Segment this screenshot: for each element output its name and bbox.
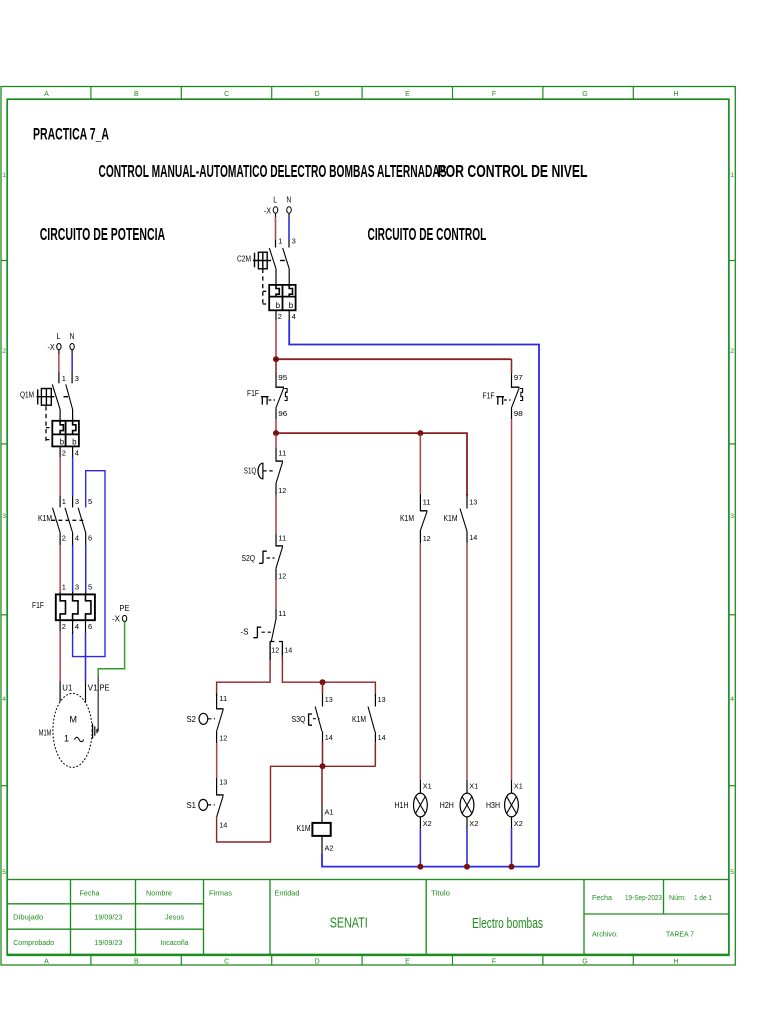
- svg-text:S3Q: S3Q: [292, 715, 306, 724]
- wire K1M14 down to lamp H2H: [466, 531, 468, 793]
- contact K1M 13-14 NO (bottom): [368, 707, 375, 732]
- C2M overload box: [269, 285, 295, 310]
- red bus L1: [276, 358, 512, 360]
- svg-text:4: 4: [292, 312, 296, 321]
- -S actuator float: [253, 627, 261, 638]
- svg-text:D: D: [315, 959, 320, 966]
- wire Q1M-2 to K1M-1: [59, 446, 61, 507]
- wire F1F-2 to motor U1: [59, 620, 61, 702]
- contactor K1M pole 2: [65, 508, 73, 533]
- wire -S-12 to S2 branch: [217, 655, 271, 696]
- overload relay F1F box: [56, 594, 95, 620]
- svg-text:H3H: H3H: [486, 801, 500, 810]
- coil K1M: [312, 823, 330, 836]
- svg-text:b: b: [289, 301, 294, 310]
- contact S3Q NO: [315, 707, 322, 732]
- svg-text:X1: X1: [423, 782, 432, 791]
- svg-text:C2M: C2M: [237, 255, 251, 264]
- K1M linkage dashed: [52, 519, 85, 521]
- row ticks: [1, 261, 735, 786]
- wire N down to Q1M: [71, 350, 73, 384]
- wire PE to motor frame: [97, 676, 98, 731]
- junction dot above coil: [320, 763, 326, 769]
- wire L to C2M: [275, 213, 277, 247]
- svg-text:F1F: F1F: [247, 389, 259, 398]
- svg-text:N: N: [286, 196, 291, 205]
- svg-text:4: 4: [75, 622, 79, 631]
- breaker Q1M crosshatch actuator: [37, 389, 69, 406]
- svg-text:11: 11: [278, 449, 286, 458]
- motor sine symbol: [75, 737, 84, 742]
- svg-text:F: F: [492, 959, 496, 966]
- svg-text:Electro bombas: Electro bombas: [472, 915, 543, 932]
- red bus 2: [276, 433, 467, 495]
- svg-text:H: H: [673, 91, 678, 98]
- svg-text:19-Sep-2023: 19-Sep-2023: [625, 893, 662, 902]
- breaker C2M pole 1 blade: [269, 248, 276, 269]
- svg-text:5: 5: [730, 869, 734, 876]
- svg-text:K1M: K1M: [297, 824, 311, 833]
- wire K1M-6 to F1F-5: [85, 533, 87, 595]
- svg-text:-X: -X: [112, 615, 121, 624]
- column ticks bottom: [91, 954, 633, 965]
- svg-text:H1H: H1H: [395, 801, 409, 810]
- svg-text:K1M: K1M: [352, 715, 366, 724]
- -S terminal 12 seat: [270, 642, 275, 656]
- svg-text:95: 95: [278, 373, 287, 382]
- blue loop wire to K1M-5: [73, 471, 105, 657]
- wire S2 to S1: [216, 731, 218, 795]
- svg-text:14: 14: [469, 533, 477, 542]
- svg-text:Núm:: Núm:: [669, 893, 686, 902]
- svg-text:2: 2: [278, 312, 282, 321]
- svg-text:X2: X2: [423, 819, 432, 828]
- svg-text:V1: V1: [88, 683, 99, 692]
- svg-text:-S: -S: [241, 628, 249, 637]
- svg-text:Entidad: Entidad: [275, 889, 300, 898]
- svg-text:Fecha: Fecha: [592, 893, 613, 902]
- S1 actuator circle: [199, 799, 208, 810]
- svg-text:CONTROL MANUAL-AUTOMATICO DELE: CONTROL MANUAL-AUTOMATICO DELECTRO BOMBA…: [99, 161, 447, 181]
- svg-text:Firmas: Firmas: [209, 889, 232, 898]
- svg-text:X2: X2: [514, 819, 523, 828]
- svg-text:12: 12: [271, 645, 279, 654]
- svg-text:S1: S1: [187, 801, 197, 810]
- junction dot bus2 mid: [417, 430, 423, 436]
- svg-text:2: 2: [730, 348, 734, 355]
- svg-text:A2: A2: [325, 844, 334, 853]
- svg-text:12: 12: [278, 486, 286, 495]
- svg-text:N: N: [70, 332, 75, 341]
- svg-text:A: A: [44, 959, 49, 966]
- svg-text:Jesus: Jesus: [165, 913, 184, 922]
- svg-text:14: 14: [284, 645, 292, 654]
- F1F trip pi symbol: [261, 397, 269, 405]
- Q1M overload box: [52, 421, 79, 447]
- contact F1F 95-96 NC thermal: [275, 386, 284, 388]
- Q1M trip linkage dashed: [46, 406, 52, 441]
- svg-text:L: L: [273, 196, 277, 205]
- wire C2M-2 down to red bus: [275, 310, 277, 359]
- svg-text:PRACTICA 7_A: PRACTICA 7_A: [33, 125, 109, 144]
- junction dot bus1: [273, 356, 279, 362]
- lamp H2H: [460, 793, 474, 817]
- svg-text:C: C: [224, 959, 229, 966]
- S3Q actuator float E: [309, 714, 312, 725]
- wire H3H to blue bus: [511, 817, 513, 867]
- svg-text:13: 13: [469, 497, 477, 506]
- svg-text:4: 4: [75, 449, 79, 458]
- svg-text:S1Q: S1Q: [244, 467, 256, 476]
- svg-text:Incacoña: Incacoña: [161, 938, 190, 947]
- -S terminal 14 seat: [279, 642, 283, 656]
- svg-text:1: 1: [730, 172, 734, 179]
- svg-text:1 de 1: 1 de 1: [694, 893, 712, 902]
- wire K1M-2 to F1F-1: [59, 533, 61, 595]
- svg-text:Dibujado: Dibujado: [13, 913, 43, 922]
- svg-text:Archivo:: Archivo:: [592, 930, 618, 939]
- svg-text:6: 6: [88, 534, 92, 543]
- svg-text:4: 4: [2, 696, 6, 703]
- svg-text:1: 1: [278, 237, 282, 246]
- svg-text:14: 14: [219, 821, 227, 830]
- svg-text:E: E: [405, 959, 410, 966]
- svg-text:2: 2: [62, 622, 66, 631]
- wire bus1 down to F1F95: [275, 359, 277, 387]
- svg-text:PE: PE: [120, 604, 130, 613]
- svg-text:E: E: [405, 91, 410, 98]
- svg-text:3: 3: [75, 497, 79, 506]
- contact F1F 97-98 NC thermal: [511, 386, 520, 388]
- breaker Q1M pole 2 blade: [66, 384, 73, 409]
- svg-text:S2: S2: [187, 715, 197, 724]
- breaker C2M pole 2 blade: [283, 248, 290, 269]
- svg-text:5: 5: [2, 869, 6, 876]
- wire H2H to blue bus: [466, 817, 468, 867]
- svg-text:-X: -X: [48, 343, 56, 352]
- svg-text:Titulo: Titulo: [431, 889, 450, 898]
- svg-text:3: 3: [75, 374, 79, 383]
- svg-text:A: A: [44, 91, 49, 98]
- svg-text:M1M: M1M: [39, 729, 52, 738]
- svg-text:2: 2: [62, 449, 66, 458]
- svg-text:G: G: [582, 91, 587, 98]
- contactor K1M pole 3: [78, 508, 86, 533]
- wire bus2 to S1Q: [275, 433, 277, 461]
- wire down to S3Q: [322, 682, 324, 706]
- svg-text:3: 3: [292, 237, 296, 246]
- svg-text:1: 1: [62, 582, 66, 591]
- svg-text:b: b: [276, 301, 281, 310]
- svg-text:19/09/23: 19/09/23: [94, 938, 122, 947]
- wire K1M-4 to F1F-3: [72, 533, 74, 595]
- svg-text:K1M: K1M: [38, 514, 52, 523]
- svg-text:TAREA 7: TAREA 7: [666, 930, 694, 939]
- contact -S changeover blade: [271, 620, 276, 641]
- wire C2M-4 blue to N rail: [288, 310, 290, 322]
- svg-text:4: 4: [730, 696, 734, 703]
- svg-text:POR CONTROL DE NIVEL: POR CONTROL DE NIVEL: [438, 161, 588, 181]
- terminal -X L: [57, 344, 61, 350]
- wire S2Q to -S: [275, 568, 277, 620]
- svg-text:F1F: F1F: [483, 392, 495, 401]
- svg-text:PE: PE: [100, 683, 110, 692]
- wire S1Q to S2Q: [275, 483, 277, 546]
- svg-text:B: B: [134, 91, 139, 98]
- svg-text:A1: A1: [325, 808, 334, 817]
- wire S1 out loop up to junction: [217, 766, 323, 842]
- terminal -X L (control): [273, 207, 278, 213]
- svg-text:14: 14: [325, 733, 333, 742]
- svg-text:U1: U1: [62, 683, 73, 692]
- svg-text:K1M: K1M: [444, 514, 458, 523]
- terminal N (power): [70, 344, 74, 350]
- svg-text:F: F: [492, 91, 496, 98]
- S1Q actuator half disc: [258, 463, 263, 479]
- svg-text:M: M: [70, 715, 78, 725]
- S2Q actuator float: [259, 551, 267, 563]
- svg-text:3: 3: [730, 513, 734, 520]
- wire H1H to blue bus: [419, 817, 421, 867]
- contact K1M 11-12 NC (mid): [420, 510, 428, 512]
- wire PE green: [98, 622, 124, 676]
- svg-text:H2H: H2H: [440, 801, 454, 810]
- wire coil A2 to blue bus: [321, 836, 323, 856]
- svg-text:b: b: [72, 438, 77, 447]
- svg-text:11: 11: [278, 533, 286, 542]
- svg-text:K1M: K1M: [400, 514, 414, 523]
- svg-text:X1: X1: [514, 782, 523, 791]
- svg-text:98: 98: [514, 409, 523, 418]
- wire F1F97 branch: [511, 359, 513, 387]
- F1F trip pi symbol (right): [496, 397, 504, 405]
- column ticks top: [91, 87, 633, 100]
- breaker Q1M pole 1 blade: [52, 384, 60, 409]
- svg-text:H: H: [673, 959, 678, 966]
- svg-text:12: 12: [423, 534, 431, 543]
- svg-text:3: 3: [75, 582, 79, 591]
- svg-text:L: L: [57, 332, 61, 341]
- wire F1F96 down to bus2: [275, 408, 277, 433]
- svg-text:D: D: [315, 91, 320, 98]
- title block: [7, 880, 729, 955]
- S2 actuator circle: [199, 713, 208, 724]
- breaker C2M crosshatch actuator: [253, 252, 285, 269]
- svg-text:G: G: [582, 959, 587, 966]
- svg-text:2: 2: [62, 534, 66, 543]
- wire F1F98 down to lamp H3H: [511, 408, 513, 793]
- wire F1F-6 to motor V1: [85, 620, 87, 702]
- svg-text:19/09/23: 19/09/23: [94, 913, 122, 922]
- junction dots on blue bus: [417, 864, 423, 870]
- svg-text:C: C: [224, 91, 229, 98]
- svg-text:1: 1: [62, 374, 66, 383]
- wire -S-14 to right: [281, 652, 283, 660]
- svg-text:5: 5: [88, 497, 92, 506]
- svg-text:3: 3: [2, 513, 6, 520]
- wire N to C2M: [288, 213, 290, 247]
- contact S1Q NC: [276, 460, 284, 462]
- svg-text:2: 2: [2, 348, 6, 355]
- svg-text:-X: -X: [264, 206, 272, 215]
- row numbers: [2, 172, 734, 876]
- svg-text:Comprobado: Comprobado: [13, 938, 54, 947]
- svg-text:b: b: [60, 438, 65, 447]
- junction dot at S3Q top: [320, 679, 326, 685]
- lamp H3H: [505, 793, 519, 817]
- wire Q1M-4 to K1M-3: [72, 446, 74, 507]
- svg-text:13: 13: [219, 778, 227, 787]
- svg-text:Q1M: Q1M: [20, 391, 34, 400]
- svg-text:6: 6: [88, 622, 92, 631]
- wire L phase down to Q1M: [58, 350, 60, 384]
- svg-text:Nombre: Nombre: [146, 889, 172, 898]
- svg-text:12: 12: [278, 572, 286, 581]
- svg-text:CIRCUITO DE POTENCIA: CIRCUITO DE POTENCIA: [40, 224, 166, 244]
- junction dot bus2 left: [273, 430, 279, 436]
- svg-text:1: 1: [2, 172, 6, 179]
- wire K1M12 down to lamp H1H: [419, 530, 421, 793]
- svg-text:F1F: F1F: [32, 601, 44, 610]
- svg-text:1: 1: [64, 734, 69, 744]
- svg-text:X2: X2: [469, 819, 478, 828]
- svg-text:11: 11: [423, 497, 431, 506]
- contact S2 NC pushbutton: [216, 694, 218, 709]
- svg-text:13: 13: [378, 695, 386, 704]
- wire K1M11 branch from bus2: [419, 433, 421, 511]
- svg-text:96: 96: [278, 409, 287, 418]
- svg-text:B: B: [134, 959, 139, 966]
- lamp H1H: [414, 793, 428, 817]
- svg-text:12: 12: [219, 734, 227, 743]
- earth bars at motor: [93, 724, 97, 739]
- C2M trip linkage dashed: [263, 269, 269, 305]
- wire junction to coil A1: [321, 766, 323, 823]
- terminal N (control): [287, 207, 292, 213]
- svg-text:11: 11: [219, 694, 227, 703]
- svg-text:4: 4: [75, 534, 79, 543]
- column letters: [44, 91, 678, 966]
- wire K1M aux down to junction rail: [374, 732, 376, 767]
- contactor K1M pole 1: [53, 508, 61, 533]
- svg-text:11: 11: [278, 609, 286, 618]
- svg-text:97: 97: [514, 373, 523, 382]
- svg-text:Fecha: Fecha: [80, 889, 101, 898]
- svg-text:CIRCUITO DE CONTROL: CIRCUITO DE CONTROL: [368, 224, 487, 244]
- svg-text:14: 14: [378, 733, 386, 742]
- wire S3Q down: [322, 732, 324, 767]
- contact S2Q NC: [276, 545, 284, 547]
- svg-text:5: 5: [88, 582, 92, 591]
- contact K1M 13-14 NO (mid): [466, 494, 468, 509]
- svg-text:X1: X1: [469, 782, 478, 791]
- svg-text:13: 13: [325, 695, 333, 704]
- svg-text:S2Q: S2Q: [242, 554, 256, 563]
- contact S1 NC pushbutton: [216, 794, 224, 796]
- svg-text:SENATI: SENATI: [330, 915, 368, 932]
- motor M1M circle: [53, 693, 92, 767]
- terminal -X PE: [122, 615, 126, 621]
- svg-text:1: 1: [62, 497, 66, 506]
